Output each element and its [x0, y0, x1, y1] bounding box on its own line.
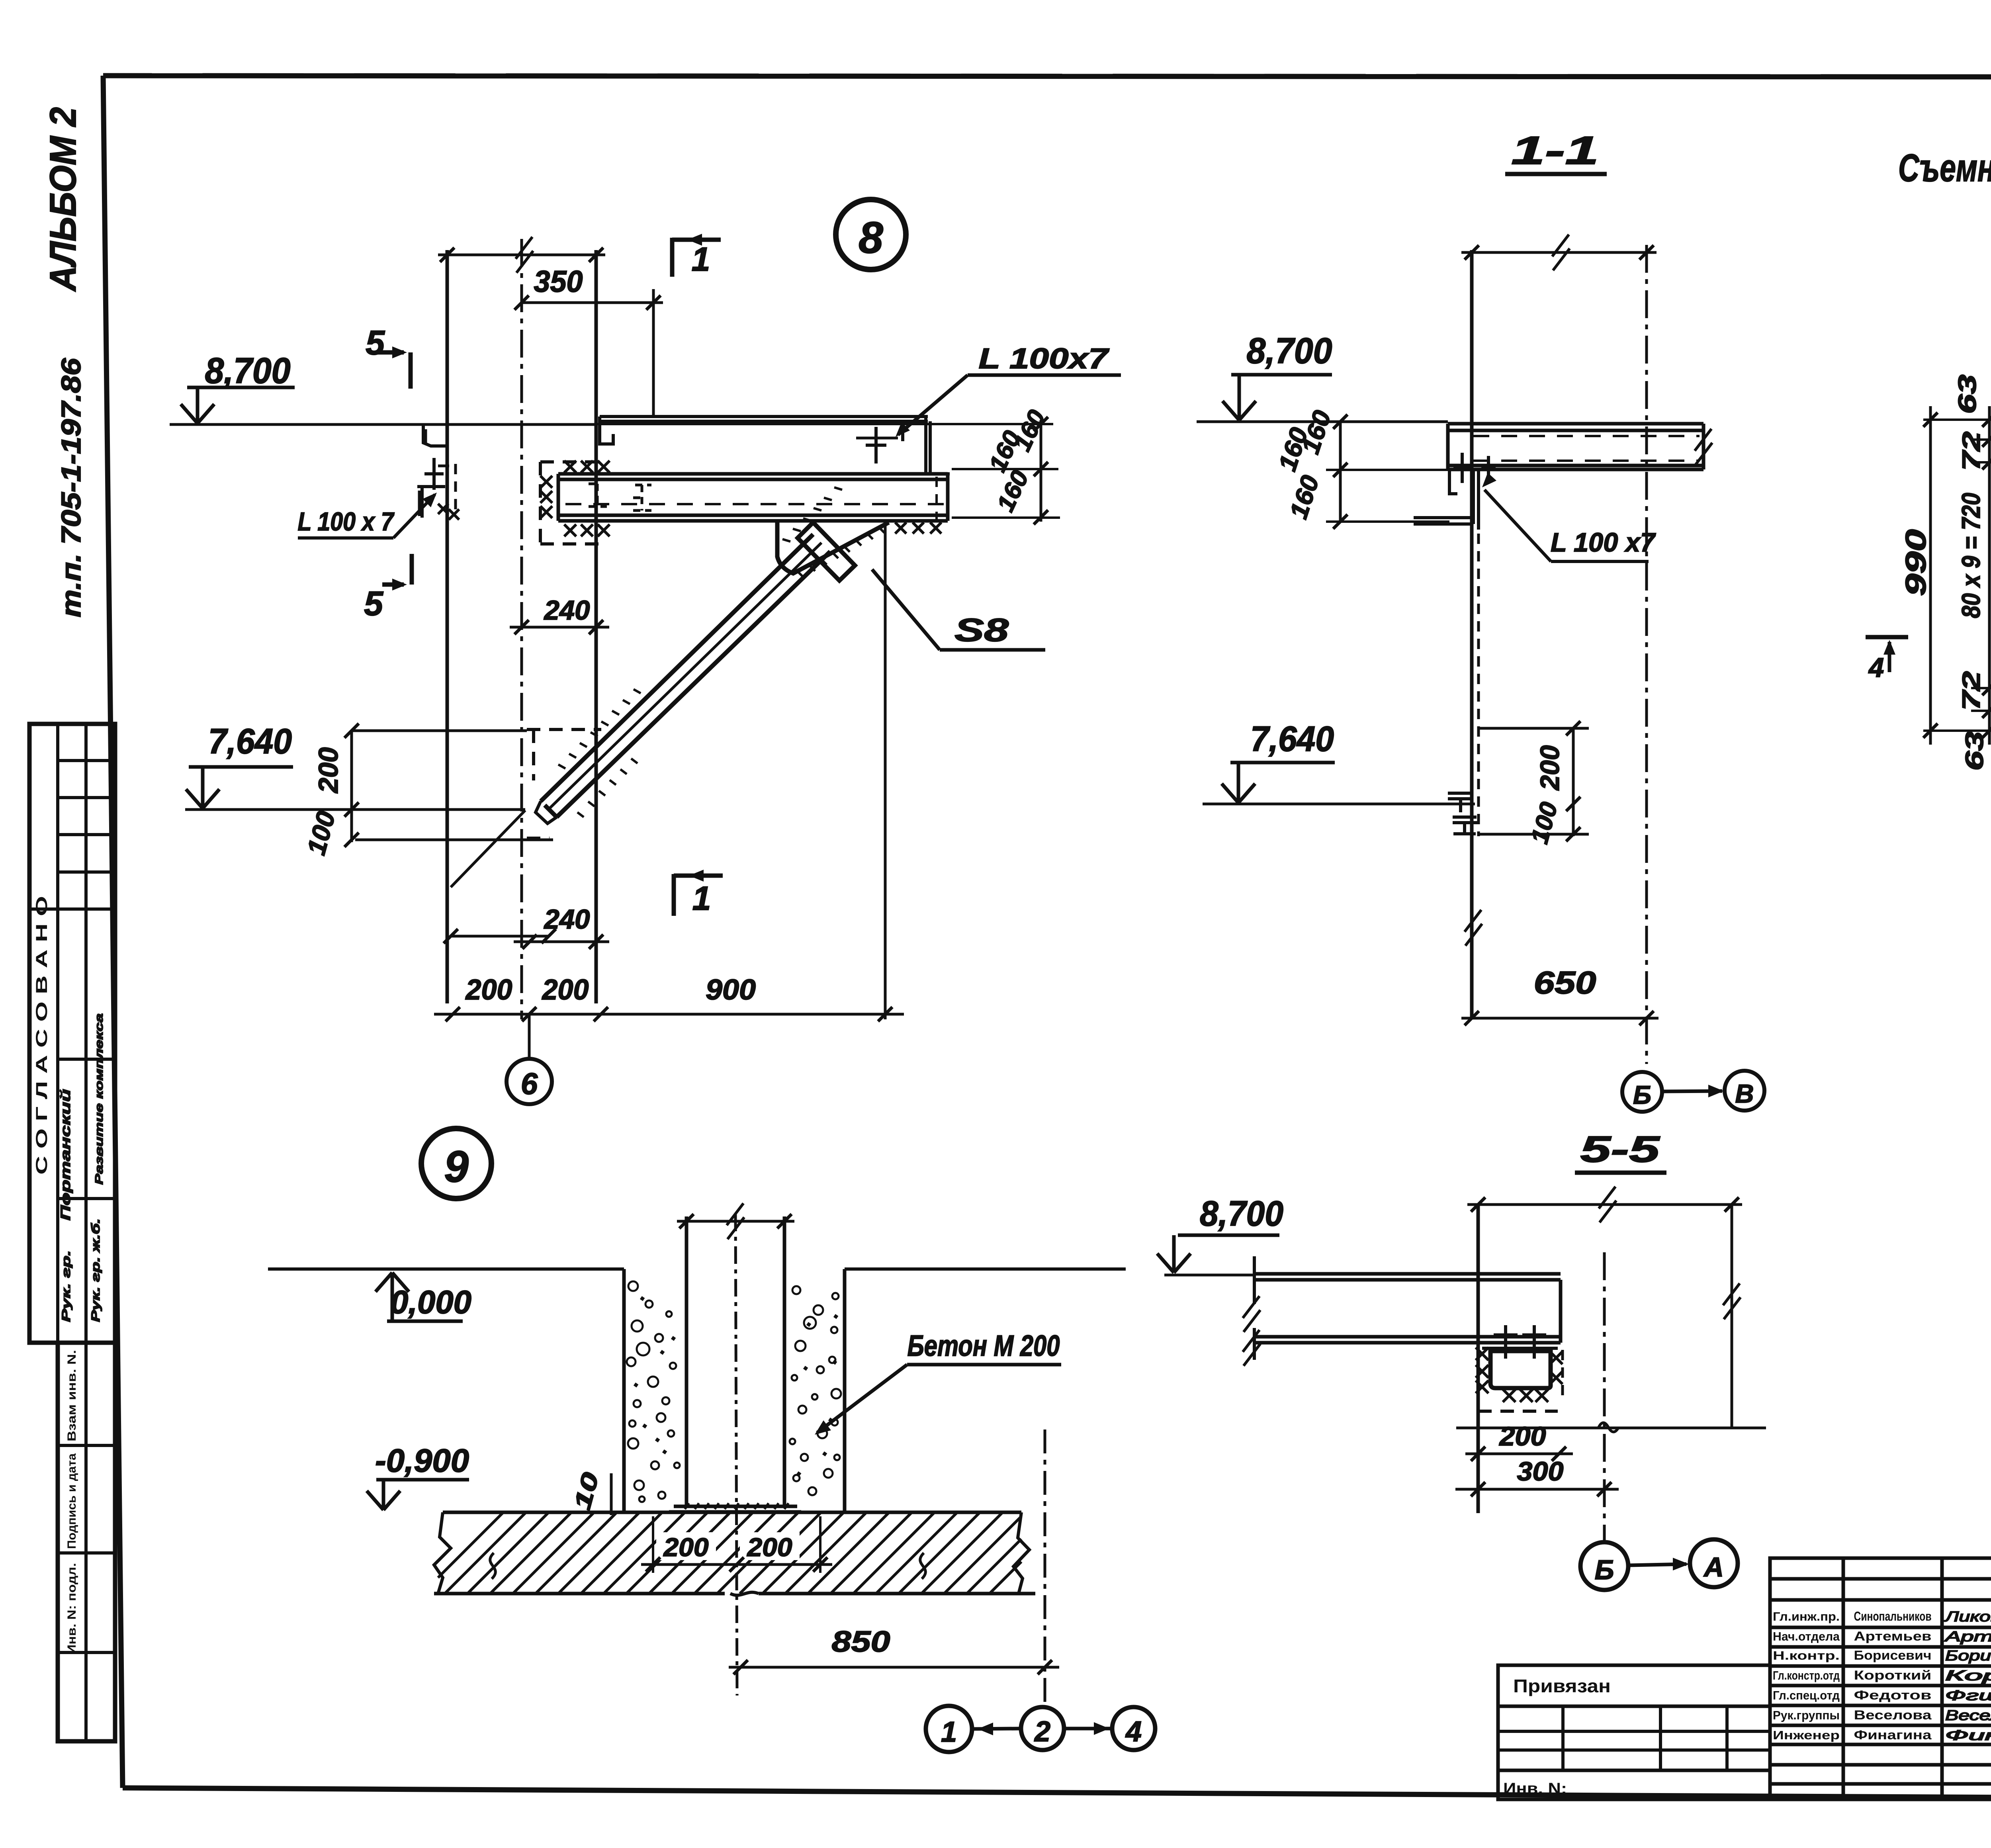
approval table box [29, 724, 115, 1343]
title block signature table [1770, 1558, 1991, 1799]
section marker 1 bottom [672, 874, 676, 916]
svg-text:т.п. 705-1-197.86: т.п. 705-1-197.86 [56, 358, 86, 618]
dashed lines below angle 5-5 [1478, 1410, 1558, 1413]
gusset plate [777, 522, 889, 573]
dim extension 900 right [884, 526, 887, 1019]
svg-text:2: 2 [1034, 1716, 1050, 1748]
weld x-marks pocket bottom [564, 524, 576, 536]
wall centerline 1-1 [1645, 245, 1648, 1064]
footing slab detail 9 [443, 1511, 1021, 1514]
svg-text:L 100 x7: L 100 x7 [1551, 528, 1656, 557]
axis bubbles B-A 5-5 [1580, 1542, 1628, 1590]
bolt mark detail 8 right [874, 427, 878, 463]
panel top chord detail 8 [600, 415, 928, 418]
svg-text:72: 72 [1958, 671, 1985, 711]
angle box welds 5-5 [1476, 1347, 1488, 1360]
angle box 5-5 [1490, 1351, 1551, 1388]
anchor ticks under plate [685, 1503, 689, 1509]
svg-text:900: 900 [706, 974, 756, 1006]
wall top dim line [438, 254, 605, 256]
svg-text:Н.контр.: Н.контр. [1773, 1649, 1840, 1662]
dim 200 200 detail 9 [656, 1532, 716, 1560]
svg-text:63: 63 [1954, 375, 1981, 414]
column centerline detail 9 [735, 1214, 737, 1695]
detail 9 bubble [421, 1128, 491, 1199]
svg-text:Синопальников: Синопальников [1854, 1609, 1932, 1623]
axis bubble 2 [1021, 1707, 1064, 1750]
dim 200-100 1-1 [1572, 728, 1575, 836]
svg-text:Инв. N: подл.: Инв. N: подл. [65, 1563, 78, 1654]
wall centerline 5-5 [1603, 1252, 1606, 1540]
svg-text:5: 5 [364, 585, 383, 623]
baseplate detail 9 [674, 1505, 797, 1508]
wall break 1-1 [1465, 910, 1482, 946]
weld x-marks pocket left [540, 476, 552, 488]
svg-text:Портанский: Портанский [58, 1089, 73, 1220]
svg-text:Б: Б [1633, 1080, 1651, 1109]
wall face angle marks 1-1 [1448, 793, 1473, 812]
svg-text:200: 200 [465, 974, 512, 1006]
svg-text:850: 850 [832, 1625, 890, 1658]
svg-text:9: 9 [444, 1142, 469, 1191]
svg-text:200: 200 [1535, 745, 1565, 791]
concrete texture left strip [628, 1281, 638, 1291]
wall pocket dashed box detail 8 [540, 460, 604, 463]
section marker 4 left [1866, 635, 1908, 639]
lower boundary line 5-5 [1456, 1427, 1766, 1430]
svg-text:1-1: 1-1 [1511, 128, 1599, 173]
weld x-marks pocket top [564, 461, 576, 473]
svg-text:4: 4 [1125, 1716, 1142, 1748]
svg-text:7,640: 7,640 [1250, 719, 1334, 759]
aux dim line lower [451, 935, 550, 938]
svg-text:8,700: 8,700 [1200, 1193, 1283, 1233]
svg-text:200: 200 [746, 1533, 792, 1562]
concrete encasement edges [622, 1269, 626, 1512]
dim 850 detail 9 [729, 1666, 1059, 1669]
axis bubble 1 [926, 1706, 972, 1752]
svg-text:8,700: 8,700 [1247, 331, 1332, 371]
left stamp column boxes [58, 1343, 115, 1741]
svg-text:S8: S8 [954, 612, 1009, 648]
svg-text:Гл.констр.отд: Гл.констр.отд [1773, 1668, 1840, 1682]
hatch break marks [490, 1553, 496, 1579]
bottom dim chain 200 200 900 [434, 1013, 904, 1016]
svg-text:Фгщ: Фгщ [1945, 1687, 1991, 1703]
svg-text:8: 8 [859, 213, 883, 262]
svg-text:Инв. N:: Инв. N: [1503, 1780, 1567, 1797]
svg-text:1: 1 [692, 241, 710, 278]
diagonal brace [541, 534, 813, 801]
svg-text:Финагина: Финагина [1854, 1728, 1932, 1742]
svg-text:Подпись и дата: Подпись и дата [65, 1453, 78, 1549]
level line 8.700 5-5 [1164, 1274, 1254, 1277]
gusset weld ticks [798, 572, 804, 577]
dim 160 labels 1-1 [1339, 422, 1342, 522]
svg-text:Арт-: Арт- [1944, 1628, 1991, 1645]
ground line detail 9 [268, 1267, 624, 1271]
brace pocket dashes lower [527, 728, 601, 731]
svg-text:Инженер: Инженер [1773, 1728, 1840, 1742]
svg-text:Нач.отдела: Нач.отдела [1773, 1629, 1840, 1643]
beam 1-1 [1448, 422, 1703, 426]
svg-text:240: 240 [544, 904, 590, 935]
svg-text:1: 1 [941, 1716, 957, 1748]
svg-text:5: 5 [366, 324, 385, 362]
svg-text:Гл.спец.отд: Гл.спец.отд [1773, 1688, 1840, 1702]
dim 200 vertical detail 8 [350, 731, 353, 810]
svg-text:Федотов: Федотов [1854, 1688, 1932, 1702]
beam support hidden brackets [589, 484, 607, 506]
steel column detail 9 [685, 1216, 688, 1507]
weld x-marks beam bottom right [895, 522, 906, 534]
wall top dim 1-1 [1461, 251, 1657, 254]
svg-text:0,000: 0,000 [390, 1284, 471, 1320]
beam hidden dashes 1-1 [1473, 435, 1700, 437]
dim 350 [522, 301, 663, 304]
column top dim detail 9 [677, 1220, 794, 1223]
svg-text:В: В [1735, 1079, 1754, 1108]
svg-text:Б: Б [1595, 1555, 1614, 1585]
svg-text:Фин: Фин [1945, 1727, 1991, 1743]
brace end plate [798, 522, 855, 581]
axis bubble 6 [507, 1059, 552, 1104]
extension to axis bubbles [1044, 1430, 1046, 1708]
svg-text:L 100x7: L 100x7 [979, 343, 1110, 375]
svg-text:Бетон М 200: Бетон М 200 [907, 1329, 1060, 1362]
level line 7.640 detail 8 [185, 808, 525, 811]
svg-text:Веселова: Веселова [1854, 1708, 1932, 1722]
svg-text:350: 350 [534, 265, 583, 299]
svg-text:Артемьев: Артемьев [1854, 1629, 1932, 1643]
left face angle assembly detail 8 [432, 458, 436, 490]
svg-text:6: 6 [521, 1067, 538, 1101]
brace axis line to wall [451, 810, 525, 887]
bolts 5-5 [1504, 1325, 1507, 1359]
svg-text:Рук. гр.: Рук. гр. [60, 1250, 73, 1322]
panel right end and bolt detail 8 [901, 421, 904, 441]
beam end break 1-1 [1695, 429, 1712, 465]
sheet frame [103, 76, 1991, 77]
svg-text:Весел: Весел [1945, 1707, 1991, 1723]
svg-text:АЛЬБОМ 2: АЛЬБОМ 2 [42, 107, 84, 292]
dim 160 160 detail 8 [1040, 420, 1042, 522]
footing left break [434, 1512, 451, 1594]
axis bubble 4 [1112, 1707, 1155, 1750]
panel chain extensions [1923, 418, 1991, 421]
svg-text:Борисевич: Борисевич [1854, 1648, 1932, 1662]
svg-text:Гл.инж.пр.: Гл.инж.пр. [1773, 1609, 1840, 1623]
beam 5-5 [1254, 1272, 1561, 1276]
wall column lines detail 8 [446, 250, 449, 1003]
approval table rows [58, 759, 115, 762]
svg-text:Рук. гр. ж.б.: Рук. гр. ж.б. [89, 1218, 102, 1322]
beam left end breaks 5-5 [1253, 1256, 1256, 1304]
svg-text:7,640: 7,640 [208, 721, 292, 761]
svg-text:650: 650 [1534, 965, 1596, 1000]
panel left dim chain [1988, 406, 1991, 745]
level line 8.700 1-1 [1197, 420, 1448, 423]
left face level step detail 8 [423, 424, 447, 446]
level line 7.640 1-1 [1203, 803, 1475, 806]
svg-text:L 100 x 7: L 100 x 7 [298, 507, 395, 536]
footing right break [1013, 1512, 1029, 1594]
wall line 5-5 [1477, 1205, 1480, 1513]
svg-text:5-5: 5-5 [1580, 1128, 1660, 1170]
footing hatching [438, 1512, 503, 1578]
svg-text:-0,900: -0,900 [375, 1443, 469, 1479]
right extension 5-5 [1731, 1205, 1733, 1428]
svg-text:Кор: Кор [1945, 1667, 1991, 1684]
brace weld ticks upper [782, 539, 790, 542]
approval table columns [56, 724, 59, 1343]
svg-text:Привязан: Привязан [1513, 1676, 1611, 1696]
beam hidden dashes detail 8 [565, 503, 944, 505]
svg-text:Рук.группы: Рук.группы [1773, 1708, 1840, 1722]
svg-text:8,700: 8,700 [205, 351, 291, 391]
svg-text:80 x 9 = 720: 80 x 9 = 720 [1956, 493, 1985, 618]
svg-text:300: 300 [1517, 1457, 1564, 1486]
detail 8 bubble [836, 199, 906, 270]
svg-text:200: 200 [663, 1533, 708, 1562]
svg-text:200: 200 [542, 974, 589, 1006]
wall face assembly 1-1 [1449, 470, 1457, 494]
axis bubbles B-V 1-1 [1622, 1072, 1662, 1112]
axis arrows 1-2-4 [972, 1729, 1021, 1729]
wall line 1-1 [1470, 250, 1474, 1018]
brace weld ticks lower-left [558, 765, 565, 769]
svg-text:63: 63 [1961, 731, 1989, 771]
svg-text:990: 990 [1900, 529, 1932, 596]
dim 100 vertical detail 8 [350, 810, 353, 842]
beam detail 8 [558, 472, 948, 476]
section marker 1 top [670, 238, 675, 277]
svg-text:200: 200 [313, 747, 344, 794]
svg-text:А: А [1703, 1552, 1724, 1582]
svg-text:200: 200 [1498, 1422, 1546, 1451]
svg-text:Ликов: Ликов [1944, 1608, 1991, 1625]
svg-text:4: 4 [1868, 652, 1884, 683]
brace weld ticks lower-right [577, 812, 584, 817]
svg-text:Взам инв. N.: Взам инв. N. [65, 1350, 78, 1441]
level line 8.700 detail 8 [170, 423, 596, 426]
panel overall dim 990 [1929, 406, 1932, 745]
concrete dots [640, 1296, 645, 1301]
svg-text:Съемные: Съемные [1898, 146, 1991, 190]
svg-text:Развитие комплекса: Развитие комплекса [93, 1013, 105, 1185]
svg-text:240: 240 [544, 595, 590, 626]
svg-text:Борис: Борис [1945, 1647, 1991, 1664]
svg-text:72: 72 [1958, 432, 1985, 471]
wall centerline detail 8 [520, 239, 523, 1019]
privyazan box [1498, 1665, 1770, 1799]
concrete texture right strip [792, 1286, 800, 1294]
top dim 5-5 [1467, 1203, 1742, 1206]
svg-text:Короткий: Короткий [1854, 1668, 1932, 1682]
axis leader to bubble 6 [528, 1014, 531, 1059]
svg-text:С О Г Л А С О В А Н О: С О Г Л А С О В А Н О [33, 896, 51, 1175]
svg-text:1: 1 [692, 880, 711, 917]
